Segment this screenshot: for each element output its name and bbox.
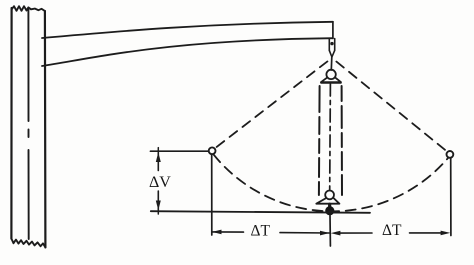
pole top break zigzag <box>12 6 45 11</box>
deltaT right dimension line right part <box>410 232 445 234</box>
arm tip edge <box>332 22 334 39</box>
arm bottom edge <box>42 38 333 66</box>
pole left edge <box>10 8 12 239</box>
pole bottom break zigzag <box>11 239 45 248</box>
deltaV dimension upper stem <box>157 152 159 170</box>
svg-text:ΔT: ΔT <box>382 222 402 239</box>
pole right edge <box>44 11 47 247</box>
left swing position circle <box>209 147 216 154</box>
right swing position circle <box>447 151 454 158</box>
top insulator cap <box>326 70 335 79</box>
deltaT left dimension line left part <box>213 231 244 233</box>
pole centre line lower solid <box>28 150 30 239</box>
deltaV top reference line <box>150 150 208 152</box>
deltaV dimension lower stem <box>157 191 159 210</box>
svg-text:ΔV: ΔV <box>149 174 171 191</box>
suspension rod left edge (dashed) <box>318 86 321 195</box>
conductor line <box>151 211 370 213</box>
deltaT right dimension line left part <box>339 232 372 234</box>
deltaV lower arrow <box>156 201 161 211</box>
swing line right (dashed) <box>336 62 447 152</box>
top insulator skirt <box>321 78 341 83</box>
swing arc (dashed) <box>214 155 449 212</box>
bottom insulator neck <box>328 204 331 207</box>
deltaV lower overshoot tick <box>157 211 159 214</box>
shackle left side <box>328 39 330 51</box>
suspension rod right edge (dashed) <box>341 86 343 196</box>
shackle right side <box>334 39 336 51</box>
shackle bolt <box>330 42 333 45</box>
svg-text:ΔT: ΔT <box>251 222 271 239</box>
centre extension line <box>329 215 331 246</box>
arm top edge <box>42 22 333 38</box>
shackle converge to pivot <box>329 50 334 57</box>
suspension rod centre line <box>329 84 332 190</box>
deltaV upper overshoot tick <box>157 148 159 152</box>
swing line left (dashed) <box>215 61 327 148</box>
deltaT right-dim left arrow <box>331 231 341 236</box>
right extension line <box>450 158 452 236</box>
bottom insulator skirt <box>316 198 339 203</box>
left extension line <box>211 155 213 236</box>
top insulator brim line <box>321 82 341 84</box>
deltaV upper arrow <box>156 152 161 162</box>
deltaT right arrow <box>441 231 451 236</box>
conductor attachment dot <box>325 206 334 215</box>
pole centre line short dash <box>28 130 30 138</box>
pole centre line upper solid <box>27 9 29 121</box>
deltaT left arrow <box>212 230 222 235</box>
deltaT left dimension line right part <box>280 232 330 234</box>
deltaT left-dim right arrow <box>320 231 330 236</box>
pivot stem <box>330 57 333 70</box>
bottom insulator cap <box>325 191 334 200</box>
